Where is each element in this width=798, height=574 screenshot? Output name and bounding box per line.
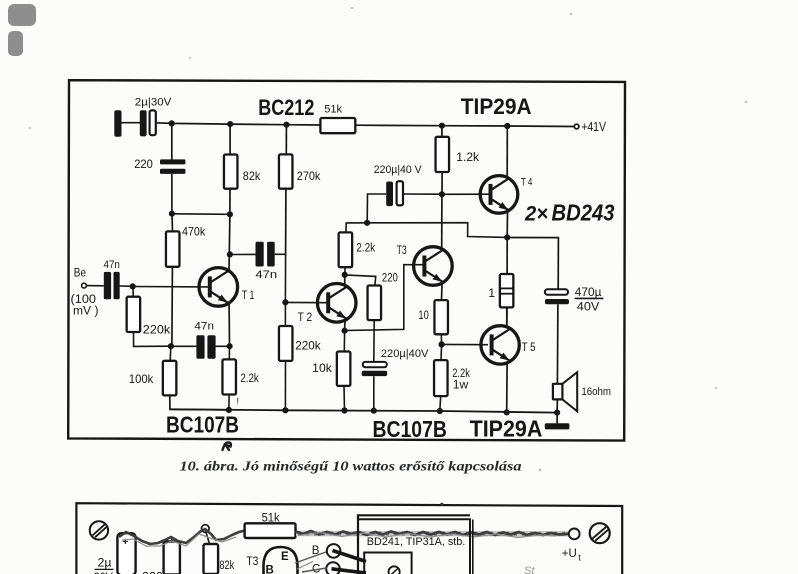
svg-text:Be: Be (74, 265, 86, 279)
wire bootstrap to T4 emitter node (367, 223, 507, 238)
pcb label T3 (246, 556, 258, 568)
svg-text:2×: 2× (524, 203, 548, 226)
resistor 51k (320, 118, 355, 133)
wire output (507, 238, 558, 384)
pcb faint mark (524, 565, 535, 574)
pcb resistor 220 (164, 537, 180, 574)
svg-text:51k: 51k (324, 104, 342, 116)
transistor T1 (199, 268, 238, 307)
svg-text:1w: 1w (453, 379, 469, 391)
node rail/speaker (554, 410, 560, 416)
label 220µ/40V feedback (381, 348, 429, 360)
label 47n coupling (255, 269, 277, 281)
terminal Be input (82, 283, 104, 288)
svg-text:47n: 47n (104, 259, 120, 271)
svg-text:470k: 470k (182, 225, 206, 239)
node rail/2.2k T1 (226, 407, 232, 413)
resistor 2.2k 1W (434, 345, 448, 412)
svg-text:TIP29A: TIP29A (470, 416, 543, 442)
pcb inner box (364, 553, 411, 574)
transistor T3 (414, 247, 453, 286)
svg-text:(100: (100 (71, 294, 97, 306)
node top rail / 1.2k (439, 123, 445, 129)
node T2 base / 220k (282, 299, 288, 305)
node T1 collector / 47n (227, 251, 233, 257)
wire 270k-47n down to T2 base (284, 254, 286, 302)
label 10k (312, 361, 333, 375)
wire 220cap node to 82k bottom (172, 213, 230, 216)
pcb pad B (327, 544, 341, 558)
pcb trace wavy left (119, 529, 245, 546)
label +41V (581, 120, 606, 134)
svg-text:BC107B: BC107B (166, 412, 239, 438)
label 2.2k T2 (356, 243, 375, 255)
node T4 emitter / 1ohm / output (504, 234, 510, 240)
svg-text:!: ! (237, 397, 240, 407)
pcb label +Ut (562, 548, 582, 562)
node bootstrap (364, 220, 370, 226)
transistor T2 (317, 284, 356, 323)
svg-text:270k: 270k (297, 169, 321, 183)
wire bottom rail (170, 409, 557, 412)
wire T2 collector (344, 275, 346, 287)
transistor T5 (481, 326, 519, 364)
svg-text:T 4: T 4 (521, 177, 532, 189)
pcb label BD241 TIP31A stb (367, 536, 466, 548)
label 1.2k (456, 152, 479, 164)
capacitor 47n input (104, 272, 133, 299)
pcb lead from C pad (332, 569, 367, 573)
pen mark below frame (223, 442, 232, 450)
svg-text:220µ|40V: 220µ|40V (381, 348, 429, 360)
terminal +41V (574, 124, 579, 129)
wire T2 emitter (344, 319, 346, 331)
resistor 82k (224, 124, 238, 214)
svg-text:1: 1 (488, 286, 495, 300)
svg-text:16ohm: 16ohm (581, 386, 611, 398)
node rail/220µ (371, 408, 377, 414)
scan smudge top-left (8, 4, 36, 56)
node T1 emitter / 47n (227, 343, 233, 349)
svg-text:10. ábra. Jó minőségű 10 watto: 10. ábra. Jó minőségű 10 wattos erősítő … (180, 459, 522, 474)
pcb scratch marks (295, 552, 327, 572)
svg-text:BC107B: BC107B (373, 416, 447, 442)
pcb screw right (590, 523, 610, 543)
capacitor 47n at T1 emitter (171, 335, 230, 359)
capacitor 220 (160, 123, 185, 213)
label 470k (182, 225, 206, 239)
svg-text:BD243: BD243 (552, 200, 615, 226)
label TIP29A bottom (470, 416, 543, 442)
capacitor 470µ/40V output (545, 289, 569, 304)
pcb label 82k (219, 560, 234, 572)
resistor 220k input (127, 287, 171, 347)
pcb trace speckle band (296, 531, 568, 537)
wire T4 base (442, 193, 490, 195)
node input/base/220k (130, 283, 136, 289)
pcb lead from B pad (333, 551, 367, 562)
svg-text:47n: 47n (194, 321, 214, 333)
resistor 10k (337, 331, 351, 411)
mark tick (237, 397, 240, 407)
svg-text:220: 220 (382, 272, 398, 284)
svg-text:47n: 47n (255, 269, 277, 281)
label 82k (243, 169, 261, 183)
node T2 collector (342, 272, 348, 278)
resistor 100k (163, 346, 229, 410)
label BC107B middle (373, 416, 447, 442)
label 47n emitter (194, 321, 214, 333)
node top rail / 82k (227, 121, 233, 127)
node rail/T5 emitter (504, 409, 510, 415)
label BC212 (258, 95, 314, 120)
svg-text:St: St (524, 565, 535, 574)
pcb label E (281, 551, 289, 563)
svg-text:2µ: 2µ (98, 557, 112, 569)
svg-text:220µ|40 V: 220µ|40 V (374, 164, 422, 176)
resistor 1 ohm (500, 238, 513, 325)
pcb label 51k (262, 513, 280, 525)
pcb capacitor 2µ electrolytic (117, 533, 135, 574)
wire T5 emitter (506, 362, 508, 413)
wire T2 base (285, 301, 328, 303)
wire T4 collector (506, 126, 508, 178)
wire T1 emitter (228, 303, 230, 346)
svg-text:220: 220 (134, 159, 153, 171)
svg-text:T 2: T 2 (298, 312, 313, 324)
svg-text:220k: 220k (295, 339, 321, 353)
pcb heatsink box (358, 515, 473, 574)
svg-text:470µ: 470µ (575, 285, 602, 299)
svg-text:82k: 82k (219, 560, 234, 572)
capacitor 47n coupling (230, 242, 286, 267)
node T4 base / 1.2k / 220µ (439, 191, 445, 197)
label 47n input (104, 259, 120, 271)
node top rail / T4 collector (504, 123, 510, 129)
label 220 feedback (382, 272, 398, 284)
svg-text:2.2k: 2.2k (240, 373, 259, 385)
pcb resistor 51k (245, 523, 296, 538)
pcb terminal +Ut (569, 529, 580, 540)
speaker 16 ohm (553, 372, 577, 412)
svg-text:82k: 82k (243, 169, 261, 183)
svg-text:2µ|30V: 2µ|30V (135, 96, 172, 108)
label T2 (298, 312, 313, 324)
resistor 270k (279, 125, 293, 255)
svg-text:51k: 51k (262, 513, 280, 525)
pcb trace wavy right (296, 531, 569, 538)
wire T5 collector (506, 307, 508, 328)
paper specks (29, 7, 748, 506)
pcb label B pad (312, 545, 320, 557)
resistor 470k (166, 214, 180, 346)
svg-text:+41V: +41V (581, 120, 606, 134)
capacitor 220µ/40V bootstrap (367, 181, 442, 223)
label 2.2k T1 (240, 373, 259, 385)
caption 10. ábra (180, 459, 522, 474)
pcb screw left (90, 521, 108, 539)
svg-text:BD241, TIP31A, stb.: BD241, TIP31A, stb. (367, 536, 466, 548)
label T4 (521, 177, 532, 189)
resistor 2.2k T2 load (339, 223, 367, 275)
resistor 1.2k (436, 126, 450, 195)
label T1 (242, 290, 255, 302)
label 220 (134, 159, 153, 171)
pcb resistor 82k (204, 532, 219, 574)
node top rail / input cap (169, 120, 175, 126)
node T5 base / 10 / 2.2k1W (439, 341, 445, 347)
handwritten label 2x BD243 (524, 200, 615, 226)
label TIP29A top (461, 94, 532, 119)
svg-text:220k: 220k (143, 322, 171, 336)
pcb transistor T3 body (264, 547, 298, 574)
label 220k input (143, 322, 171, 336)
label (100 mV) (71, 294, 99, 317)
pcb label 220 (142, 572, 163, 574)
label 470µ 40V (575, 285, 604, 314)
wire T3 emitter (441, 283, 444, 300)
svg-text:BC212: BC212 (258, 95, 314, 120)
svg-text:40V: 40V (577, 302, 600, 314)
label 100k (129, 372, 154, 386)
resistor 10 (434, 300, 448, 344)
label Be (74, 265, 86, 279)
ground bar (545, 413, 570, 430)
label 220k T2 (295, 339, 321, 353)
svg-text:B: B (266, 565, 274, 574)
svg-text:T3: T3 (246, 556, 258, 568)
svg-text:TIP29A: TIP29A (461, 94, 532, 119)
node 100k/47n/470k (168, 343, 174, 349)
svg-text:E: E (281, 551, 289, 563)
node 82k bottom (227, 211, 233, 217)
svg-text:T 5: T 5 (522, 342, 536, 354)
node rail/10k (341, 407, 347, 413)
svg-text:T 1: T 1 (242, 290, 255, 302)
label 51k (324, 104, 342, 116)
capacitor C1 2µ/30V input electrolytic (114, 110, 156, 137)
wire T3 base path (345, 265, 424, 331)
label 1 ohm (488, 286, 495, 300)
svg-text:100k: 100k (129, 372, 154, 386)
svg-text:2.2k: 2.2k (452, 368, 470, 380)
capacitor 220µ/40V feedback (362, 362, 388, 411)
label 10 (418, 308, 429, 322)
resistor 2.2k T1 emitter (222, 346, 236, 410)
label T3 (397, 245, 407, 257)
schematic frame (68, 80, 625, 440)
pcb pad circle (202, 525, 210, 533)
label 270k (297, 169, 321, 183)
pcb pad C (326, 562, 340, 574)
svg-text:10: 10 (418, 308, 429, 322)
label BC107B left (166, 412, 239, 438)
pcb inner screw (389, 566, 400, 574)
label 2µ/30V (135, 96, 172, 108)
wire T4 emitter (506, 212, 508, 238)
node rail/2.2k 1W (437, 408, 443, 414)
pcb label B inside (266, 565, 274, 574)
svg-text:T3: T3 (397, 245, 407, 257)
wire input node to T1 base (133, 286, 210, 288)
svg-text:10k: 10k (312, 361, 333, 375)
svg-text:+: + (122, 537, 128, 548)
wire T5 base (442, 343, 488, 345)
label 220µ/40V bootstrap (374, 164, 422, 176)
node top rail / 270k (283, 122, 289, 128)
label 2.2k 1W (452, 368, 470, 391)
wire T3 collector (441, 194, 443, 250)
svg-text:1.2k: 1.2k (456, 152, 479, 164)
pcb figure frame (76, 503, 622, 574)
node rail/220k T2 (282, 407, 288, 413)
wire T1 collector (228, 214, 231, 270)
label 16ohm (581, 386, 611, 398)
node 220cap/470k (169, 211, 175, 217)
svg-text:mV ): mV ) (73, 306, 99, 318)
transistor T4 (480, 176, 518, 214)
svg-text:+U: +U (562, 548, 577, 560)
pcb label 2µ/30V (94, 557, 114, 574)
label T5 (522, 342, 536, 354)
wire top supply rail (155, 123, 574, 127)
resistor 220k T2 (279, 302, 293, 410)
pcb label C pad (312, 564, 320, 574)
resistor 220 feedback (345, 275, 381, 362)
node T2 emitter (342, 328, 348, 334)
svg-text:2.2k: 2.2k (356, 243, 375, 255)
